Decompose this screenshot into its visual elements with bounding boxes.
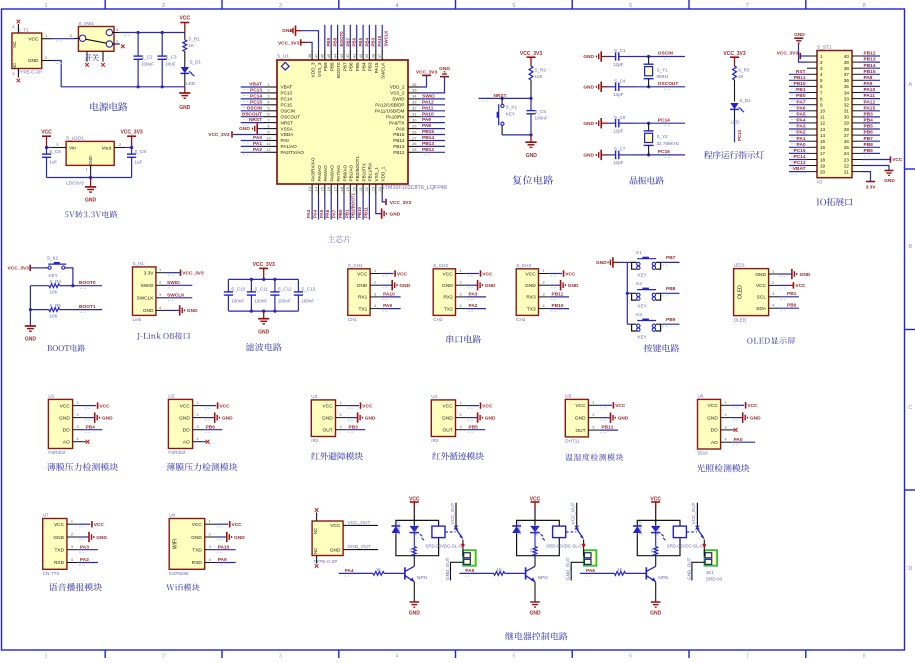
wire terminal gnd_out 2 xyxy=(692,562,705,580)
wire U6 GND xyxy=(731,418,742,421)
svg-text:VBAT: VBAT xyxy=(249,82,262,88)
module U7 CN-TTS xyxy=(43,513,78,576)
svg-text:PA2: PA2 xyxy=(469,303,478,309)
svg-text:3: 3 xyxy=(56,143,58,147)
ground GND io pin22 xyxy=(884,171,895,184)
svg-text:4: 4 xyxy=(542,304,544,308)
svg-text:S_CH2: S_CH2 xyxy=(433,263,448,268)
svg-text:CH1: CH1 xyxy=(348,317,358,322)
svg-text:2: 2 xyxy=(159,281,161,285)
svg-text:PB8: PB8 xyxy=(333,37,338,46)
svg-text:SWCLK: SWCLK xyxy=(381,62,386,79)
wire net PB0 xyxy=(343,196,345,220)
resistor base 1K 1 xyxy=(373,567,384,575)
svg-text:27: 27 xyxy=(844,133,850,138)
svg-text:ESP8266: ESP8266 xyxy=(169,571,189,576)
svg-text:GND: GND xyxy=(442,283,453,289)
wire io net RST xyxy=(789,74,807,77)
svg-text:PA10: PA10 xyxy=(422,111,434,117)
wire io net PA8 xyxy=(862,80,880,83)
junction rail-C2 xyxy=(137,31,140,34)
power port VCC U7 xyxy=(92,521,104,528)
svg-text:1: 1 xyxy=(459,401,461,405)
svg-text:SCL: SCL xyxy=(757,295,767,301)
ground GND U7 xyxy=(89,532,107,542)
svg-text:GND: GND xyxy=(526,153,538,159)
svg-text:PA10/RX: PA10/RX xyxy=(386,114,405,119)
wire io net PB11 xyxy=(789,80,807,83)
svg-text:1N4007: 1N4007 xyxy=(637,521,642,535)
wire net PB5 xyxy=(356,25,358,50)
svg-text:S_C12: S_C12 xyxy=(278,287,292,292)
svg-text:STM32F103C8T6_LQFP48: STM32F103C8T6_LQFP48 xyxy=(381,185,447,191)
svg-text:S_C2: S_C2 xyxy=(141,55,153,60)
svg-text:PA1: PA1 xyxy=(797,136,806,142)
svg-text:4: 4 xyxy=(459,304,461,308)
wire VSS_1 to gnd xyxy=(376,196,382,214)
ground GND boot xyxy=(25,326,37,343)
svg-text:PC13: PC13 xyxy=(737,129,742,141)
svg-text:IR2: IR2 xyxy=(431,438,439,443)
svg-text:VCC_3V3: VCC_3V3 xyxy=(390,200,412,206)
svg-text:39: 39 xyxy=(364,53,369,58)
power port 3.3V io pin21 xyxy=(866,182,877,191)
power port VCC_3V3 jlink xyxy=(181,270,204,277)
svg-text:PA4: PA4 xyxy=(797,118,806,124)
regulator S_LDO1 LDO3V3 xyxy=(52,136,126,186)
svg-text:TXD: TXD xyxy=(192,548,202,554)
svg-text:1: 1 xyxy=(820,54,823,59)
junction filter bottom xyxy=(262,310,265,313)
no-connect U1 xyxy=(86,440,90,444)
ground GND S_CH1 xyxy=(392,280,410,290)
wire net PA9 xyxy=(420,123,445,126)
svg-text:1: 1 xyxy=(592,401,594,405)
capacitor S_C13 100nF xyxy=(294,279,316,311)
svg-text:PB5: PB5 xyxy=(355,62,360,71)
svg-text:Vin: Vin xyxy=(69,145,76,151)
svg-text:29: 29 xyxy=(412,123,417,128)
svg-text:13: 13 xyxy=(820,127,826,132)
svg-text:PA8: PA8 xyxy=(422,123,431,129)
wire filter top rail xyxy=(228,278,298,280)
svg-text:GND: GND xyxy=(88,156,93,166)
svg-text:S_ST1: S_ST1 xyxy=(817,45,832,51)
svg-text:OLED: OLED xyxy=(738,285,744,299)
svg-text:RXD: RXD xyxy=(54,560,65,566)
svg-text:20: 20 xyxy=(820,169,826,174)
svg-text:10K: 10K xyxy=(50,313,59,318)
svg-text:1: 1 xyxy=(71,520,73,524)
svg-text:PB9: PB9 xyxy=(666,317,676,323)
relay contact dot 2 xyxy=(582,540,585,547)
junction gndrail-C2 xyxy=(137,85,140,88)
wire net PA2 xyxy=(241,152,264,155)
wire U4 VCC xyxy=(466,406,479,409)
section title 红外避障模块 xyxy=(311,452,363,460)
svg-text:12: 12 xyxy=(820,121,826,126)
svg-text:22: 22 xyxy=(844,163,850,168)
svg-text:2: 2 xyxy=(77,413,79,417)
svg-text:PA12/USB/DP: PA12/USB/DP xyxy=(375,103,404,108)
svg-text:GND_OUT: GND_OUT xyxy=(566,557,571,580)
svg-text:GND: GND xyxy=(583,54,594,60)
svg-text:GND: GND xyxy=(330,547,341,553)
wire U2 GND xyxy=(203,418,214,421)
junction rail-C3 xyxy=(161,31,164,34)
svg-text:PB2/BOOT1: PB2/BOOT1 xyxy=(355,156,360,182)
no-connect U6 xyxy=(734,428,738,432)
svg-text:S_C3: S_C3 xyxy=(165,55,177,60)
svg-text:10: 10 xyxy=(266,135,271,140)
pin numbers U1 bottom xyxy=(307,186,382,191)
power port VCC_3V3 VDDA xyxy=(208,131,232,138)
svg-text:38: 38 xyxy=(844,66,850,71)
section title OLED显示屏 xyxy=(747,337,795,344)
svg-text:DO: DO xyxy=(183,428,190,434)
module S_CH2 CH2 xyxy=(433,263,466,322)
svg-text:18: 18 xyxy=(339,186,344,191)
svg-text:TX1: TX1 xyxy=(358,306,367,312)
wire relay vcc 2 xyxy=(534,509,536,520)
wire S_CH2 PA3 xyxy=(466,297,486,300)
svg-text:GND: GND xyxy=(179,105,191,111)
svg-text:S_Y2: S_Y2 xyxy=(657,134,669,139)
svg-text:4: 4 xyxy=(772,304,774,308)
svg-text:S_D2: S_D2 xyxy=(739,98,751,103)
svg-text:RST: RST xyxy=(796,69,806,75)
svg-text:2: 2 xyxy=(162,654,165,659)
junction filter top xyxy=(262,278,265,281)
svg-text:LED: LED xyxy=(186,81,196,86)
ground GND chip top xyxy=(282,26,301,36)
wire net PB8 xyxy=(330,25,332,50)
ground GND filter xyxy=(258,311,270,335)
svg-text:LED1: LED1 xyxy=(734,263,746,268)
pin numbers U1 left xyxy=(266,82,271,152)
capacitor S_C12 100nF xyxy=(270,279,292,311)
svg-text:VCC: VCC xyxy=(443,271,454,277)
wire net OSCOUT xyxy=(241,117,264,120)
zone letters right xyxy=(908,82,912,572)
svg-text:NPN: NPN xyxy=(658,575,669,581)
ground GND S_C6 xyxy=(583,118,607,128)
wire relay vcc 2 xyxy=(655,509,657,520)
wire jlink pin3 xyxy=(166,298,192,301)
wire oled pin3 xyxy=(779,297,799,300)
svg-text:PB6: PB6 xyxy=(864,130,874,136)
ground GND keys xyxy=(596,257,618,267)
svg-text:U4: U4 xyxy=(431,394,437,399)
svg-text:7: 7 xyxy=(746,654,749,659)
svg-text:10K: 10K xyxy=(535,74,544,79)
svg-text:3: 3 xyxy=(116,28,118,32)
terminal block JK2 xyxy=(584,550,597,566)
wire jlink pin4 xyxy=(166,309,180,311)
svg-text:S_R5: S_R5 xyxy=(50,303,62,308)
relay coil 2 xyxy=(673,526,686,538)
svg-text:35: 35 xyxy=(412,88,417,93)
svg-text:NPN: NPN xyxy=(538,575,549,581)
svg-text:2: 2 xyxy=(820,60,823,65)
wire U5 VCC xyxy=(599,405,612,408)
resistor S_R3 1K xyxy=(733,66,750,102)
svg-text:RX1: RX1 xyxy=(358,295,368,301)
section title 晶振电路 xyxy=(630,176,664,184)
wire io net PB13 xyxy=(862,62,880,65)
svg-text:VCC: VCC xyxy=(192,522,203,528)
svg-text:2: 2 xyxy=(374,281,376,285)
section title 程序运行指示灯 xyxy=(704,151,764,159)
power port VCC_3V3 chip top xyxy=(278,39,307,46)
wire net PA8 xyxy=(420,129,445,132)
svg-text:13: 13 xyxy=(307,186,312,191)
wire io net PB6 xyxy=(862,135,880,138)
wire base 2 xyxy=(580,573,614,576)
svg-text:GND: GND xyxy=(583,84,594,90)
wire net PA0 xyxy=(241,141,264,144)
svg-text:U1: U1 xyxy=(48,394,54,399)
wire S_CH3 GND xyxy=(549,285,560,288)
relay K2 SRD-05VDC-SL-C xyxy=(517,520,560,555)
wire collector 2 xyxy=(655,556,657,567)
wire io pin21 xyxy=(862,172,871,182)
svg-text:VCC: VCC xyxy=(482,271,493,277)
svg-text:3.3V: 3.3V xyxy=(866,184,877,190)
ground GND oled xyxy=(792,269,811,279)
svg-text:PB11: PB11 xyxy=(552,292,564,298)
wire vcc to key xyxy=(30,267,44,269)
svg-text:DO: DO xyxy=(63,428,70,434)
svg-text:PA10: PA10 xyxy=(383,292,395,298)
wire net PB13 xyxy=(420,146,445,149)
svg-text:2: 2 xyxy=(459,281,461,285)
svg-text:PA7: PA7 xyxy=(797,99,806,105)
wire io net PC14 xyxy=(789,160,807,163)
svg-text:PC14: PC14 xyxy=(281,97,293,102)
svg-text:14: 14 xyxy=(313,186,318,191)
svg-text:U5: U5 xyxy=(565,394,571,399)
svg-text:PB14: PB14 xyxy=(393,138,405,143)
svg-text:48: 48 xyxy=(307,53,312,58)
svg-text:S_SW1: S_SW1 xyxy=(78,21,94,26)
svg-text:3: 3 xyxy=(77,425,79,429)
ground GND U3 xyxy=(358,412,376,422)
ground GND relay 2 xyxy=(529,602,541,617)
svg-text:1K: 1K xyxy=(529,548,534,553)
relay contact dot 2 xyxy=(703,540,706,547)
svg-text:GND: GND xyxy=(85,198,97,204)
LED S_D1 xyxy=(180,60,201,87)
svg-text:TXD: TXD xyxy=(54,548,64,554)
wire net PA7 xyxy=(337,196,339,220)
svg-text:CH3: CH3 xyxy=(516,317,526,322)
wire base to transistor 2 xyxy=(505,572,526,574)
svg-text:42: 42 xyxy=(345,53,350,58)
junction vout xyxy=(130,146,133,149)
svg-text:S_R3: S_R3 xyxy=(738,68,750,73)
wire net NRST xyxy=(241,123,264,126)
svg-text:PA3: PA3 xyxy=(797,124,806,130)
resistor base 1K 2 xyxy=(494,567,505,575)
svg-text:GND: GND xyxy=(282,28,293,34)
svg-text:5516: 5516 xyxy=(698,451,709,456)
svg-text:PA3: PA3 xyxy=(80,544,89,550)
svg-text:GND: GND xyxy=(357,283,368,289)
wire gnd to VSS_3 xyxy=(302,31,319,50)
svg-text:22: 22 xyxy=(364,186,369,191)
svg-text:GND: GND xyxy=(390,212,401,218)
svg-text:AO: AO xyxy=(183,440,190,446)
svg-text:PB6: PB6 xyxy=(206,424,216,430)
svg-text:4: 4 xyxy=(374,304,376,308)
resistor S_R5 10K xyxy=(30,303,73,318)
wire io net PB5 xyxy=(862,129,880,132)
svg-text:3: 3 xyxy=(592,426,594,430)
svg-text:GND: GND xyxy=(750,415,761,421)
wire net PB3 xyxy=(368,25,370,50)
wire net PB10 xyxy=(362,196,364,220)
section title 继电器控制电路 xyxy=(505,632,568,640)
svg-text:VCC_OUT: VCC_OUT xyxy=(450,502,455,524)
wire base 1 xyxy=(339,573,373,576)
wire S_CH1 VCC xyxy=(381,274,394,277)
svg-text:VSS_1: VSS_1 xyxy=(374,167,379,182)
svg-text:35: 35 xyxy=(844,84,850,89)
svg-text:PB14: PB14 xyxy=(422,135,434,141)
svg-text:3: 3 xyxy=(339,425,341,429)
svg-text:PA2: PA2 xyxy=(253,147,262,153)
svg-text:PA0: PA0 xyxy=(281,138,290,143)
wire U7 GND xyxy=(78,537,89,540)
svg-text:21: 21 xyxy=(844,169,850,174)
svg-text:GND: GND xyxy=(143,308,154,314)
wire io net PB1 xyxy=(789,93,807,96)
relay K2 SRD-05VDC-SL-C xyxy=(637,520,680,555)
svg-text:1: 1 xyxy=(116,39,118,43)
wire net BOOT0 xyxy=(337,25,339,50)
wire S_C4 net xyxy=(634,87,685,90)
power port VCC S_CH1 xyxy=(395,270,407,277)
svg-text:KEY: KEY xyxy=(638,304,647,309)
svg-text:17: 17 xyxy=(820,151,826,156)
power port VCC_3V3 led xyxy=(723,51,745,66)
connector T1 TYPE-C-2P xyxy=(12,24,52,78)
svg-text:SWCLK: SWCLK xyxy=(136,296,154,302)
svg-text:OUT: OUT xyxy=(575,428,585,434)
svg-text:S_LDO1: S_LDO1 xyxy=(66,136,84,141)
svg-text:S_C5: S_C5 xyxy=(535,109,547,114)
svg-text:2: 2 xyxy=(162,3,165,9)
power port VCC S_CH3 xyxy=(564,270,576,277)
svg-text:PB12: PB12 xyxy=(422,147,434,153)
capacitor S_C10 100nF xyxy=(224,279,246,311)
no-connect relay typec top xyxy=(315,508,319,512)
svg-text:PA3: PA3 xyxy=(306,209,311,218)
svg-text:1: 1 xyxy=(209,520,211,524)
svg-text:38: 38 xyxy=(371,53,376,58)
wire net PB4 xyxy=(362,25,364,50)
svg-text:1: 1 xyxy=(374,269,376,273)
wire S_CH3 PB10 xyxy=(549,309,569,312)
wire U4 GND xyxy=(466,418,477,421)
wire vcc to VDD_3 xyxy=(307,42,313,49)
svg-text:PA11: PA11 xyxy=(864,93,876,99)
ground GND relay 2 xyxy=(650,602,662,617)
wire contact to terminal 2 xyxy=(703,547,705,556)
svg-text:S_R2: S_R2 xyxy=(535,68,547,73)
svg-text:SWIO: SWIO xyxy=(422,94,435,100)
svg-text:3: 3 xyxy=(542,292,544,296)
wire U3 PB3 xyxy=(346,430,365,433)
wire io net PA12 xyxy=(862,105,880,108)
svg-text:PB12: PB12 xyxy=(393,150,405,155)
svg-text:PA0: PA0 xyxy=(253,135,262,141)
junction nrst-cap xyxy=(529,97,532,100)
svg-text:PB12: PB12 xyxy=(601,425,613,431)
svg-text:1uF: 1uF xyxy=(49,160,57,165)
wire io pin23 xyxy=(862,159,890,161)
svg-text:PB9: PB9 xyxy=(323,62,328,71)
svg-text:LDO3V3: LDO3V3 xyxy=(66,180,84,185)
svg-text:S_Y1: S_Y1 xyxy=(657,67,669,72)
svg-text:GND: GND xyxy=(800,272,811,278)
svg-text:PA5/AO: PA5/AO xyxy=(323,165,328,182)
svg-text:OSCIN: OSCIN xyxy=(281,109,296,114)
junction key2 xyxy=(626,292,629,295)
svg-text:OSCOUT: OSCOUT xyxy=(281,114,301,119)
svg-text:TX3: TX3 xyxy=(527,306,536,312)
power port VCC_3V3 ldo out xyxy=(120,130,142,148)
wire terminal gnd_out 1 xyxy=(451,562,464,580)
wire base 2 xyxy=(459,573,493,576)
wire VCC pin to switch xyxy=(52,39,74,41)
svg-text:JK1: JK1 xyxy=(706,570,714,575)
svg-text:VBAT: VBAT xyxy=(793,166,806,172)
svg-text:VCC: VCC xyxy=(180,403,191,409)
svg-text:RX3: RX3 xyxy=(526,295,536,301)
relay K1 SRD-05VDC-SL-C xyxy=(396,520,439,555)
svg-text:PA9/TX: PA9/TX xyxy=(389,120,405,125)
diode 1N4007 relay 2 xyxy=(512,521,521,535)
svg-text:PA9: PA9 xyxy=(383,303,392,309)
wire U1 nc xyxy=(83,441,86,443)
svg-text:3: 3 xyxy=(197,425,199,429)
svg-text:8: 8 xyxy=(863,654,866,659)
no-connect switch pin 1 xyxy=(121,45,125,49)
svg-text:PA10: PA10 xyxy=(864,87,876,93)
svg-text:FSR402: FSR402 xyxy=(168,450,185,455)
resistor 1K relay 2 xyxy=(529,533,537,556)
junction boot rail xyxy=(29,308,32,311)
ground GND VSS_2 xyxy=(439,66,450,77)
svg-text:PC14: PC14 xyxy=(658,117,670,123)
svg-text:K1: K1 xyxy=(636,250,642,255)
wire io net PA1 xyxy=(789,141,807,144)
svg-text:100nF: 100nF xyxy=(231,298,244,303)
svg-text:1N4007: 1N4007 xyxy=(517,521,522,535)
svg-text:2: 2 xyxy=(772,281,774,285)
capacitor S_C9 1uF xyxy=(127,148,146,178)
svg-text:43: 43 xyxy=(339,53,344,58)
junction gndrail-C3 xyxy=(161,85,164,88)
svg-text:39: 39 xyxy=(844,60,850,65)
svg-text:10uF: 10uF xyxy=(165,61,176,66)
svg-text:37: 37 xyxy=(377,53,382,58)
wire io pin1 xyxy=(800,55,807,57)
svg-text:25: 25 xyxy=(844,145,850,150)
svg-text:1K: 1K xyxy=(497,567,502,572)
